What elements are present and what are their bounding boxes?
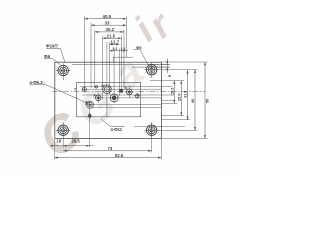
top groove line lower: [132, 66, 170, 68]
svg-text:5.1: 5.1: [113, 47, 118, 51]
drawing layer: [0, 0, 240, 180]
right dim R2: [180, 81, 182, 116]
svg-text:50: 50: [206, 99, 210, 103]
vertical extension x98.3: [97, 93, 99, 103]
vertical extension x94.8: [94, 30, 96, 89]
svg-text:25.9: 25.9: [178, 94, 182, 101]
svg-text:4-Φ11: 4-Φ11: [111, 127, 123, 132]
mounting hole bottom-left: [56, 123, 70, 137]
bottom dim C: [55, 157, 162, 159]
right dim R1: [173, 81, 175, 104]
top dim L3: [95, 31, 124, 33]
step tick x113.2: [112, 57, 114, 62]
right dim R3: [187, 70, 189, 119]
top dim L2: [91, 24, 126, 26]
top dim L5: [109, 43, 119, 45]
svg-text:10: 10: [57, 138, 62, 143]
port center: [109, 94, 119, 102]
vertical extension x91: [90, 23, 92, 88]
right ext line y67.1: [155, 66, 170, 68]
svg-text:8: 8: [168, 75, 172, 77]
leader for bottom note: [101, 119, 125, 127]
plate outline: [55, 62, 162, 138]
leader for top-right hole: [134, 50, 149, 66]
watermark layer: [0, 0, 240, 180]
svg-text:33: 33: [105, 20, 110, 25]
groove line 107.7: [92, 107, 162, 109]
mounting hole bottom-right: [144, 123, 158, 137]
right ext line y103.4: [162, 102, 178, 104]
svg-text:15.5: 15.5: [171, 88, 175, 95]
right dim R0: [166, 59, 168, 74]
vertical extension x84.3: [83, 17, 85, 93]
mounting hole top-left: [56, 63, 70, 80]
right ext line y80.6: [150, 80, 184, 82]
port P: [101, 85, 112, 94]
mounting hole top-right: [144, 63, 158, 78]
section arrow diamond: [88, 113, 92, 119]
small step line above plate: [113, 56, 133, 58]
vertical extension right edge to dims: [160, 139, 162, 159]
right ext line bottom hole centerline: [159, 129, 198, 131]
vertical extension x124: [123, 30, 125, 89]
vertical extension left hole to dims: [62, 122, 64, 148]
svg-text:40.5: 40.5: [103, 14, 112, 19]
svg-text:1.6: 1.6: [121, 47, 126, 51]
valve footprint inner rectangle: [77, 82, 141, 117]
pin hole: [95, 86, 97, 88]
right ext line y62: [161, 61, 207, 63]
top dim L6: [110, 50, 128, 52]
bottom dim B: [63, 150, 151, 152]
vertical extension x102.7: [102, 36, 104, 99]
vertical centerline x114.1: [113, 49, 115, 104]
vertical centerline x106.9: [106, 42, 108, 117]
svg-text:30.2: 30.2: [106, 27, 115, 32]
leader for hole callout: [44, 49, 65, 65]
right dim R5: [204, 62, 206, 138]
port A: [96, 95, 102, 101]
groove line 104.7: [85, 104, 162, 106]
port row line 95: [82, 94, 174, 96]
right ext line y119.7: [162, 119, 191, 121]
svg-text:28.5: 28.5: [72, 138, 81, 143]
vertical centerline x129.3: [128, 86, 130, 98]
vertical extension right hole to dims: [151, 122, 153, 153]
horizontal centerline: [52, 91, 205, 93]
svg-text:82.6: 82.6: [115, 153, 124, 158]
svg-text:73: 73: [108, 146, 113, 151]
small side hole: [134, 93, 140, 99]
right ext line plate bottom: [161, 137, 207, 139]
svg-text:Φ6: Φ6: [44, 54, 51, 59]
svg-text:12.7: 12.7: [111, 40, 120, 45]
top groove line upper: [72, 63, 170, 65]
vertical extension left edge to dims: [54, 139, 56, 159]
vertical extension x119.3: [118, 49, 120, 97]
vertical extension x109.4: [108, 42, 110, 95]
right dim R4: [194, 70, 196, 131]
vertical extension x121.5: [121, 36, 123, 93]
svg-text:4-Φ5.3□: 4-Φ5.3□: [30, 80, 46, 85]
leader for 4 bolt holes note: [30, 85, 89, 104]
svg-text:Φ10/7: Φ10/7: [46, 44, 59, 49]
right ext line hole centerline: [159, 69, 198, 71]
bottom dim A: [51, 145, 94, 147]
top dim L1: [84, 18, 126, 20]
vertical extension x126.4: [125, 17, 127, 58]
svg-text:21.5: 21.5: [107, 33, 116, 38]
groove line y126.7: [134, 126, 185, 128]
port T: [81, 86, 87, 92]
port row line upper: [80, 86, 172, 88]
svg-text:Φ5: Φ5: [136, 45, 142, 50]
vertical extension x89.7 bottom: [89, 101, 91, 148]
right ext line y115.7: [162, 115, 185, 117]
port row line 97.8: [93, 97, 162, 99]
right ext line y64.3: [155, 63, 170, 65]
port row line 89: [82, 88, 162, 90]
svg-text:31.8: 31.8: [184, 91, 188, 98]
right ext line y100.2: [162, 99, 176, 101]
leader target hole: [86, 101, 93, 108]
top dim L4: [103, 37, 122, 39]
port B: [125, 89, 133, 95]
small hole: [119, 89, 123, 93]
svg-text:46: 46: [191, 99, 195, 103]
